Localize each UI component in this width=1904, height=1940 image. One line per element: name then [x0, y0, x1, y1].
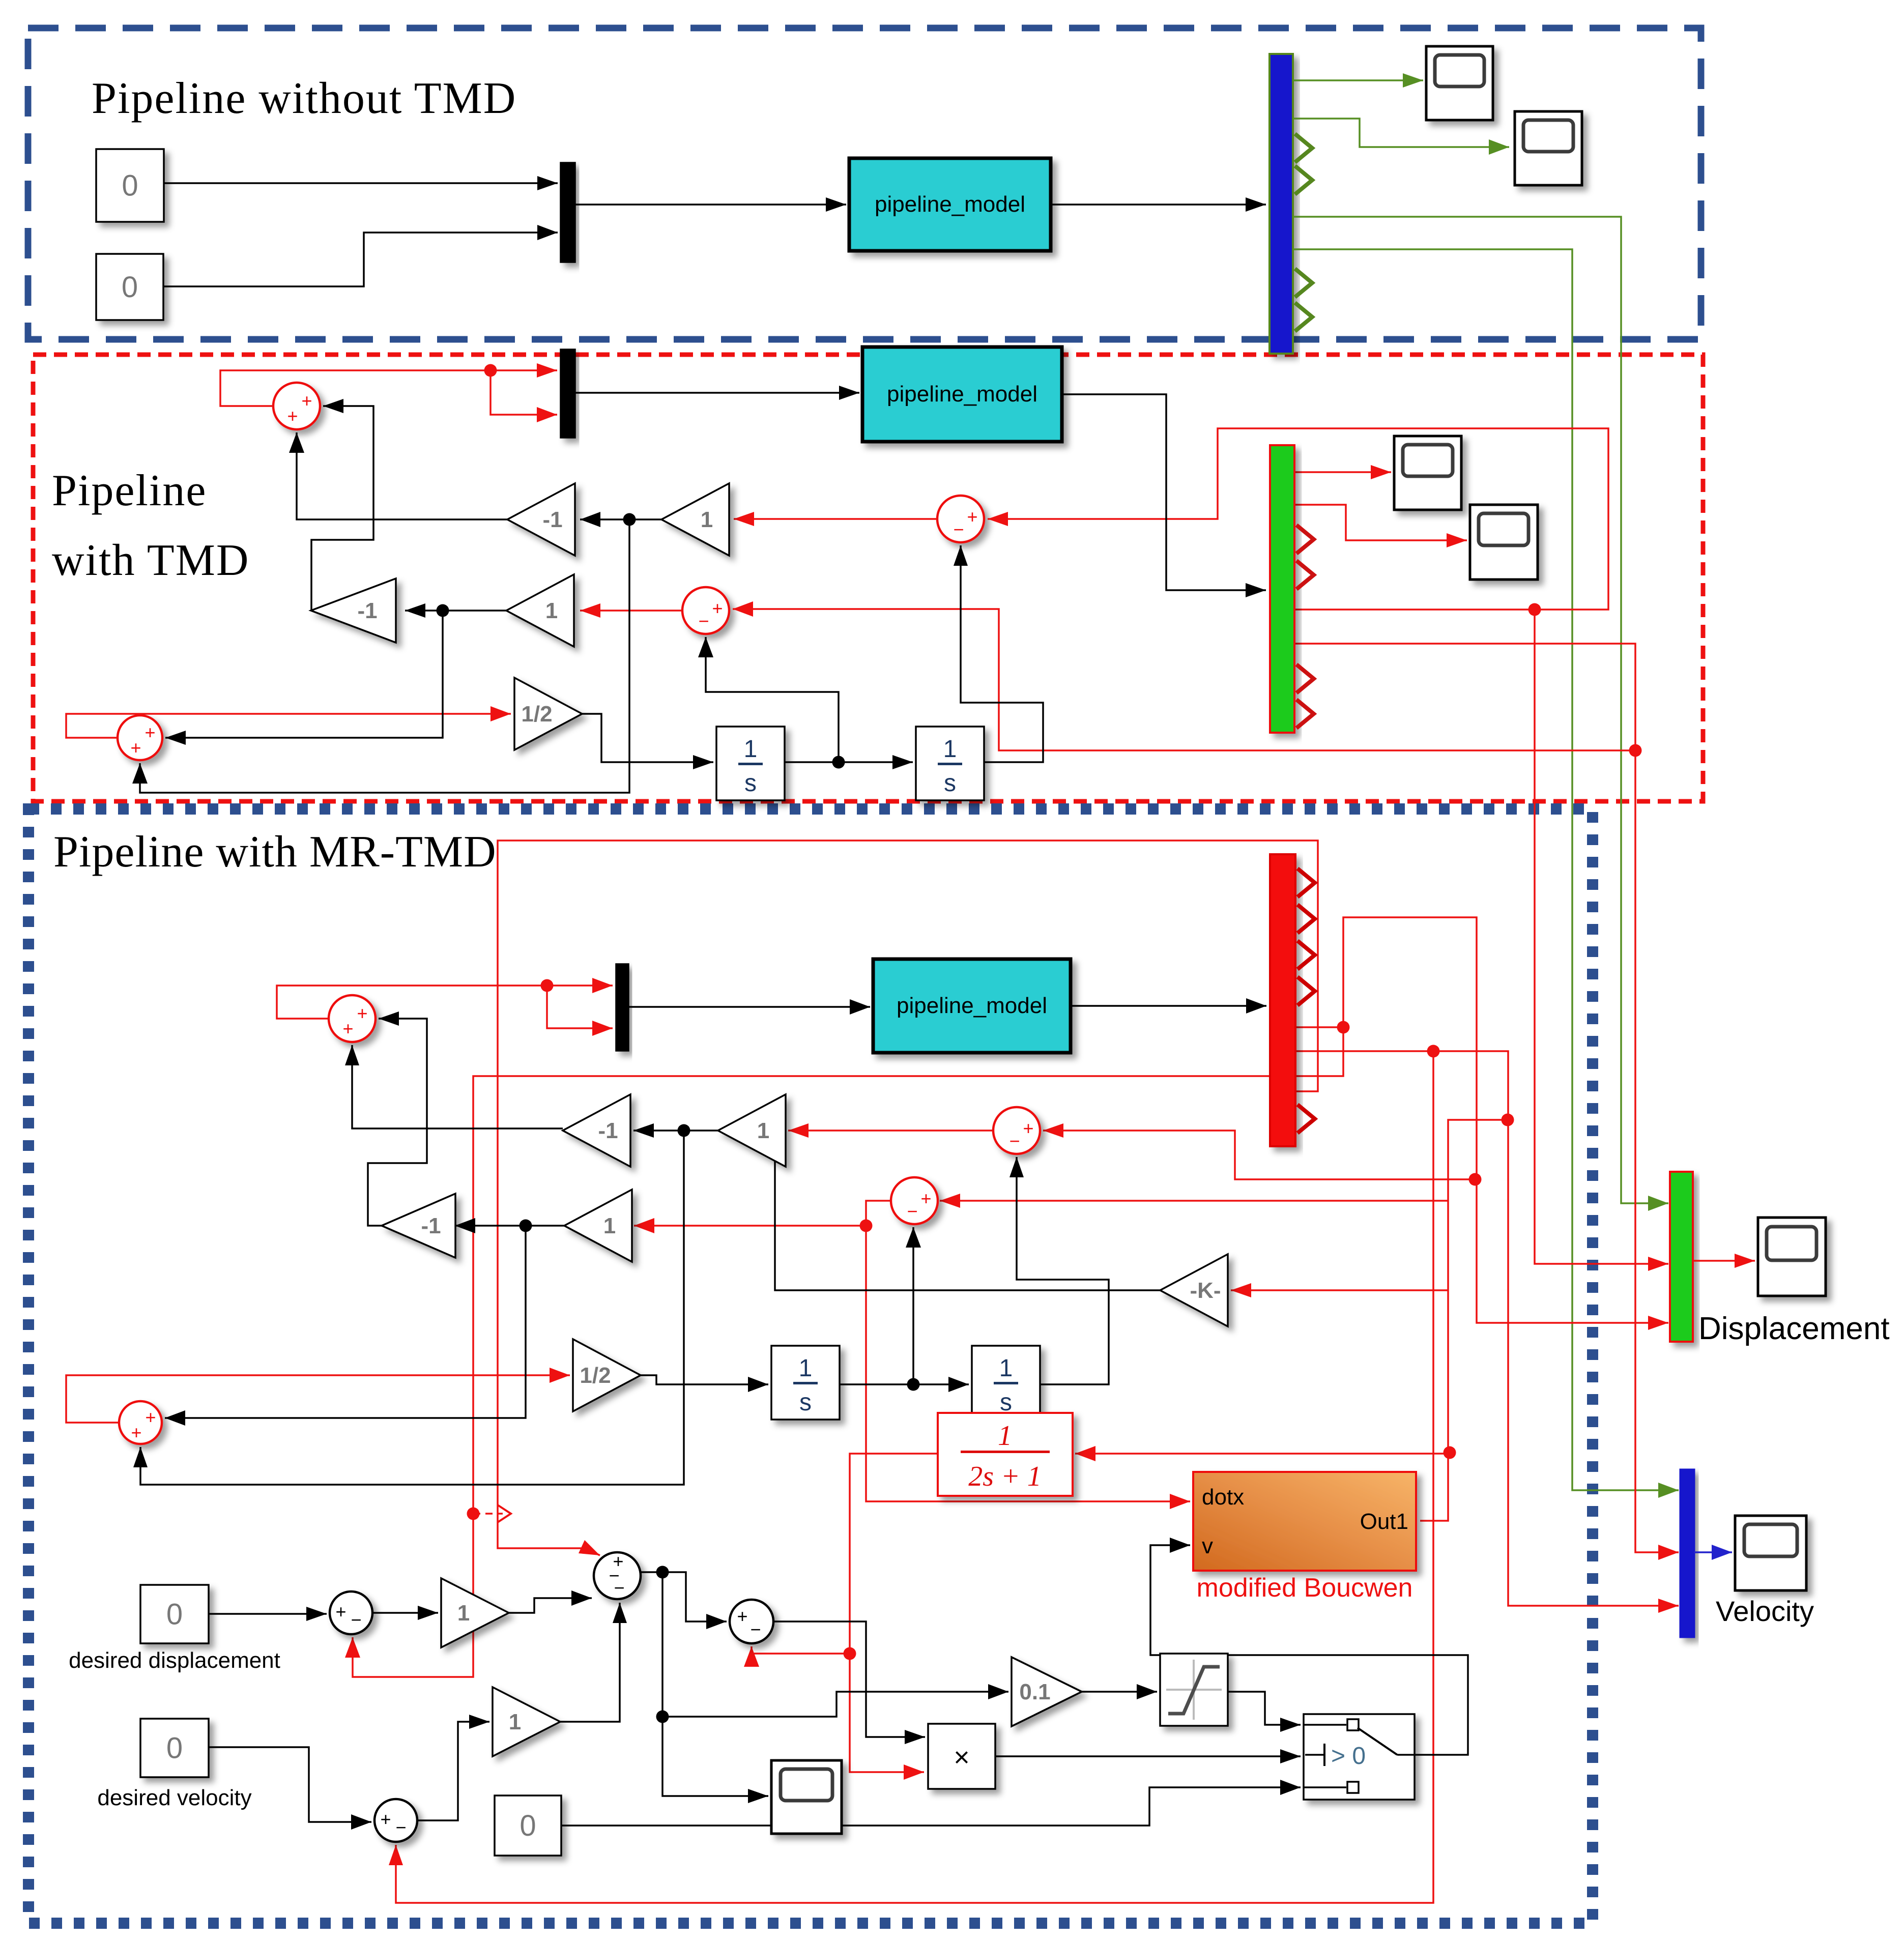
- sum block S10 (+- desired velocity): [374, 1799, 417, 1842]
- wire integrator2 output to S2 bottom input: [954, 545, 1043, 762]
- wire junction to S8 right input: [1043, 1123, 1475, 1179]
- svg-text:1: 1: [509, 1710, 521, 1734]
- svg-text:> 0: > 0: [1331, 1743, 1366, 1770]
- gain 1 (section 3 row 1): [718, 1094, 786, 1167]
- wire gain 0.1 output to saturation: [1082, 1684, 1157, 1699]
- gain -1 (section 3 row 1): [563, 1094, 630, 1167]
- demux3 unconnected port 3: [1297, 941, 1315, 969]
- svg-text:Displacement: Displacement: [1698, 1311, 1890, 1346]
- svg-text:0: 0: [520, 1809, 536, 1842]
- wire port6 branch to Velocity mux port2: [1635, 750, 1679, 1560]
- svg-text:+: +: [145, 1407, 156, 1428]
- wire transfer function output to product bottom: [844, 1454, 938, 1780]
- gain -1 (section 2 row 1): [507, 483, 575, 556]
- wire force to gain -K- input: [1231, 1283, 1448, 1297]
- wire demux3 port6 stub: [1295, 1045, 1440, 1058]
- wire gain 1/2 output to integrator1: [582, 714, 713, 769]
- svg-text:1: 1: [999, 1355, 1013, 1382]
- svg-text:pipeline_model: pipeline_model: [887, 382, 1037, 407]
- scope Scope4 (section 2): [1470, 505, 1538, 580]
- gain 1/2 (section 2): [514, 678, 582, 750]
- scope Scope2 (section 1): [1515, 111, 1582, 185]
- sum block S4 (+- desired displacement): [330, 1591, 372, 1634]
- wire gain1row1 tip to gain -1 row1: [580, 512, 661, 527]
- demux1 unconnected port 7: [1295, 269, 1312, 297]
- wire row2 junction to S1b right input: [165, 611, 443, 745]
- svg-text:+: +: [380, 1809, 391, 1830]
- svg-text:s: s: [744, 770, 757, 797]
- svg-text:−: −: [614, 1577, 624, 1598]
- svg-text:-1: -1: [542, 507, 562, 532]
- demux1 unconnected port 8: [1295, 303, 1312, 331]
- sum block S5 (+-- controller): [594, 1551, 641, 1599]
- wire port5 branch to S4 bottom (via x930): [345, 1027, 1343, 1677]
- subsystem modified Boucwen (orange block): [1193, 1472, 1416, 1571]
- svg-text:+: +: [737, 1606, 747, 1627]
- wire saturation output to switch input1: [1228, 1692, 1301, 1732]
- svg-text:modified Boucwen: modified Boucwen: [1197, 1573, 1413, 1603]
- svg-text:1: 1: [603, 1213, 616, 1238]
- svg-text:1: 1: [943, 736, 957, 763]
- sum block S2 (-+, section 2 row1): [937, 496, 984, 542]
- demux2 unconnected port 7: [1296, 664, 1314, 693]
- wire g1 output to S5 left input: [509, 1590, 592, 1613]
- demux1 unconnected port 4: [1295, 166, 1312, 194]
- scope Scope5 (section 3): [771, 1760, 842, 1834]
- wire S7 output to mux3 port1: [277, 978, 613, 1019]
- wire product output to switch input2: [995, 1749, 1301, 1763]
- wire g2 output to S5 bottom input: [560, 1603, 627, 1722]
- svg-text:0: 0: [122, 271, 138, 304]
- wire S5 branch down to scope5: [656, 1572, 769, 1803]
- svg-text:1: 1: [744, 736, 758, 763]
- gain 0.1: [1012, 1657, 1082, 1726]
- svg-text:+: +: [301, 390, 312, 411]
- wire mux2 to pipeline_model2: [575, 386, 859, 400]
- svg-text:+: +: [131, 1422, 141, 1443]
- wire s3row1 junction to S7b bottom input: [133, 1131, 684, 1485]
- mux Mux1 (section 1, black bar): [561, 163, 575, 262]
- sum block S6 (+-): [730, 1600, 773, 1643]
- wire constant2 to mux1: [163, 225, 558, 286]
- wire port6 branch to desired-velocity sum bottom: [389, 1051, 1433, 1903]
- wire s3row2 junction to S7b right input: [165, 1226, 526, 1426]
- wire desired displacement const to S4: [209, 1607, 327, 1621]
- wire mux1 to pipeline_model1: [575, 197, 846, 212]
- wire gain -1 s3row1 output to S7 bottom: [345, 1045, 563, 1128]
- svg-text:0: 0: [166, 1598, 183, 1631]
- wire port5 branch to Displacement mux port3: [1343, 917, 1668, 1330]
- svg-text:desired velocity: desired velocity: [97, 1785, 251, 1810]
- demux2 unconnected port 4: [1296, 561, 1314, 589]
- gain 1 (velocity branch): [493, 1687, 560, 1756]
- wire port6 branch to S3 right input: [733, 601, 1635, 750]
- svg-text:v: v: [1202, 1533, 1213, 1558]
- wire row1 junction to S1b bottom input: [132, 519, 629, 793]
- svg-text:−: −: [1009, 1131, 1020, 1151]
- wire branch to Boucwen dotx input: [866, 1226, 1190, 1509]
- svg-text:+: +: [920, 1188, 931, 1209]
- wire S4 output to gain block g1: [373, 1606, 438, 1620]
- demux3 unconnected port 1: [1297, 868, 1315, 897]
- wire port6 branch to Velocity mux port3: [1433, 1051, 1679, 1613]
- wire constant 0 to switch input3: [561, 1780, 1301, 1826]
- svg-text:−: −: [953, 519, 964, 540]
- demux Demux3 (section 3, red bar): [1270, 854, 1295, 1146]
- wire demux1 port6 to Velocity mux (long green): [1293, 249, 1679, 1498]
- svg-text:−: −: [750, 1619, 761, 1640]
- constant block 0 (input 2, section 1): [96, 254, 163, 320]
- wire demux1 port2 to scope2: [1293, 119, 1509, 155]
- scope Displacement scope: [1758, 1218, 1826, 1296]
- wire branch to Displacement mux port2: [1535, 610, 1668, 1271]
- sum block S7 (++, section 3 top): [329, 995, 376, 1042]
- wire gain 1/2 output to integrator3: [641, 1375, 768, 1392]
- svg-text:Out1: Out1: [1360, 1509, 1408, 1534]
- gain -1 (section 3 row 2): [382, 1194, 455, 1258]
- open arrowhead of dangling branch: [498, 1505, 511, 1522]
- wire Velocity mux to scope (blue): [1694, 1545, 1732, 1560]
- svg-text:+: +: [335, 1601, 346, 1622]
- svg-text:+: +: [342, 1018, 353, 1039]
- gain -K-: [1160, 1254, 1228, 1326]
- wire demux1 port1 to scope1: [1293, 73, 1423, 88]
- svg-text:s: s: [799, 1389, 812, 1416]
- gain 1 (section 2 row 2): [506, 574, 574, 647]
- svg-text:0: 0: [122, 169, 138, 202]
- integrator 1/s (section 2 second): [916, 727, 984, 800]
- mux Displacement (green bar): [1670, 1172, 1693, 1342]
- wire force to S9 right input: [940, 1194, 1448, 1208]
- svg-text:1/2: 1/2: [580, 1363, 611, 1388]
- demux3 unconnected port 4: [1297, 977, 1315, 1005]
- wire branch up to S9 bottom input: [906, 1227, 921, 1384]
- section border: Pipeline with MR-TMD (blue dotted): [28, 809, 1593, 1923]
- wire branch to gain 0.1: [662, 1684, 1008, 1717]
- dangling dashed branch: [473, 1513, 503, 1515]
- wire pipeline_model3 to demux3: [1071, 998, 1266, 1014]
- transfer function block 1/(2s+1): [938, 1413, 1073, 1496]
- wire S9 output to gain 1 row2 input: [634, 1201, 891, 1233]
- wire gain -1 s3row2 output jog to S7 right: [368, 1011, 427, 1226]
- saturation block: [1160, 1654, 1228, 1726]
- switch block (> 0): [1304, 1714, 1415, 1800]
- gain 1 (section 3 row 2): [564, 1190, 632, 1262]
- svg-text:with TMD: with TMD: [52, 536, 249, 585]
- wire demux2 port6 down: [1294, 644, 1642, 757]
- wire demux1 port5 to Displacement mux (long green): [1293, 217, 1668, 1211]
- demux2 unconnected port 8: [1296, 700, 1314, 728]
- svg-text:0.1: 0.1: [1019, 1680, 1050, 1704]
- constant block 0 (switch input): [495, 1796, 561, 1856]
- wire S7 output branch to mux3 port2: [547, 986, 613, 1036]
- wire S6 output to product top input: [773, 1622, 925, 1744]
- svg-text:desired displacement: desired displacement: [69, 1648, 280, 1673]
- wire S3 output to gain 1 row2: [580, 603, 682, 618]
- svg-text:Pipeline: Pipeline: [52, 466, 207, 515]
- gain 1/2 (section 3): [573, 1339, 641, 1411]
- svg-text:2s + 1: 2s + 1: [968, 1461, 1042, 1492]
- demux Demux1 (section 1, blue bar): [1270, 54, 1293, 354]
- demux3 unconnected port 2: [1297, 905, 1315, 933]
- subsystem pipeline_model (section 2): [862, 347, 1062, 442]
- sum block S3 (-+, section 2 row2): [682, 587, 729, 634]
- demux3 unconnected port 8: [1297, 1105, 1315, 1133]
- wire demux3 port5 stub: [1295, 1021, 1350, 1034]
- gain -1 (section 2 row 2): [311, 578, 396, 643]
- svg-text:dotx: dotx: [1202, 1485, 1244, 1510]
- svg-text:+: +: [967, 506, 977, 527]
- sum block S1 (++, section 2 top): [273, 383, 320, 429]
- wire force to transfer function input: [1075, 1446, 1448, 1461]
- svg-text:Pipeline without TMD: Pipeline without TMD: [92, 74, 516, 123]
- svg-text:1: 1: [457, 1601, 470, 1626]
- wire velocity sum output to gain g2: [418, 1715, 489, 1820]
- section border: Pipeline with TMD (red dashed): [33, 355, 1703, 801]
- svg-text:-1: -1: [598, 1118, 618, 1143]
- svg-text:+: +: [145, 722, 155, 743]
- gain 1 (displacement branch): [441, 1578, 509, 1647]
- svg-text:1: 1: [799, 1355, 813, 1382]
- svg-text:−: −: [698, 611, 709, 631]
- subsystem pipeline_model (section 1): [849, 158, 1051, 251]
- svg-text:1: 1: [545, 598, 558, 623]
- subsystem pipeline_model (section 3): [873, 959, 1071, 1053]
- scope Scope1 (section 1): [1426, 46, 1493, 120]
- svg-text:Pipeline with MR-TMD: Pipeline with MR-TMD: [53, 827, 497, 877]
- wire Boucwen Out1 feedback up: [1420, 1120, 1508, 1521]
- wire gain -1 row1 output to S1 bottom: [289, 432, 507, 519]
- svg-text:-1: -1: [357, 598, 377, 623]
- wire pipeline_model2 to demux2: [1062, 394, 1266, 597]
- svg-text:1/2: 1/2: [521, 702, 552, 727]
- mux Mux3 (section 3, black bar): [616, 964, 628, 1051]
- svg-text:+: +: [712, 598, 723, 619]
- wire S2 output to gain 1 row1: [734, 512, 937, 526]
- svg-text:pipeline_model: pipeline_model: [897, 993, 1047, 1018]
- sum block S7b (++, section 3 left): [119, 1401, 162, 1444]
- svg-text:-1: -1: [421, 1213, 441, 1238]
- svg-text:−: −: [907, 1201, 917, 1222]
- wire demux2 port2 to scope4: [1295, 505, 1467, 547]
- wire S5 output to S6: [641, 1566, 727, 1630]
- wire desired velocity const to sum: [209, 1747, 371, 1830]
- svg-text:−: −: [351, 1609, 361, 1630]
- wire integrator4 output to S8 bottom input: [1009, 1157, 1109, 1384]
- wire gain1row2 tip to gain -1 row2: [405, 603, 506, 618]
- wire constant1 to mux1: [164, 176, 558, 190]
- wire demux2 port5 to S2 right input: [988, 428, 1608, 616]
- svg-text:Velocity: Velocity: [1716, 1595, 1814, 1627]
- demux1 unconnected port 3: [1295, 134, 1312, 162]
- wire S1 output to mux2 port1: [220, 363, 557, 406]
- mux Velocity (blue bar): [1680, 1469, 1694, 1637]
- wire S7b output loop to gain 1/2: [66, 1368, 570, 1423]
- integrator 1/s (section 2 first): [716, 727, 785, 800]
- constant block 0 (input 1, section 1): [96, 149, 164, 222]
- sum block S8 (-+, section 3 row1): [993, 1107, 1040, 1154]
- wire branch to S6 bottom input: [744, 1646, 850, 1667]
- wire S8 output to gain 1 row1 input: [788, 1123, 993, 1138]
- svg-text:+: +: [130, 737, 141, 758]
- svg-text:pipeline_model: pipeline_model: [875, 192, 1025, 217]
- svg-text:1: 1: [701, 507, 713, 532]
- wire switch output to Boucwen v input: [1150, 1538, 1468, 1755]
- integrator 1/s (section 3 second): [972, 1346, 1040, 1420]
- wire Displacement mux to scope: [1693, 1254, 1755, 1268]
- svg-text:s: s: [944, 770, 956, 797]
- wire gain -1 row2 output to S1 right input: [311, 399, 373, 611]
- wire s3row1 gain1 tip to gain -1: [633, 1123, 718, 1138]
- svg-text:−: −: [395, 1817, 406, 1838]
- wire gain -K- output into row1 line: [769, 1124, 1161, 1291]
- product block (x): [928, 1724, 995, 1789]
- svg-text:1: 1: [757, 1118, 769, 1143]
- wire integrator1 to integrator2: [785, 755, 913, 769]
- wire S1 output branch to mux2 port2: [491, 370, 557, 422]
- wire branch up to S3 bottom input: [698, 637, 839, 762]
- integrator 1/s (section 3 first): [771, 1346, 840, 1420]
- wire demux2 port1 to scope3: [1295, 465, 1391, 479]
- scope Scope3 (section 2): [1394, 436, 1461, 510]
- gain 1 (section 2 row 1): [661, 483, 729, 556]
- wire mux3 to pipeline_model3: [628, 999, 870, 1015]
- svg-text:0: 0: [166, 1732, 183, 1765]
- wire integrator3 to integrator4: [840, 1377, 969, 1392]
- section border: Pipeline without TMD (blue dashed): [28, 28, 1701, 339]
- svg-text:+: +: [1023, 1118, 1033, 1139]
- svg-text:×: ×: [954, 1742, 970, 1773]
- svg-text:+: +: [287, 406, 298, 426]
- wire s3row2 gain1 tip to gain -1: [455, 1218, 564, 1233]
- demux Demux2 (section 2, green bar): [1270, 445, 1294, 733]
- scope Velocity scope: [1735, 1516, 1806, 1590]
- svg-text:-K-: -K-: [1190, 1278, 1221, 1303]
- svg-text:1: 1: [998, 1420, 1012, 1452]
- constant block 0 (desired velocity): [140, 1719, 209, 1777]
- sum block S9 (-+, section 3 row2): [891, 1177, 938, 1224]
- wire S1b output loop to gain 1/2: [66, 706, 511, 738]
- mux Mux2 (section 2, black bar): [561, 350, 575, 438]
- svg-text:+: +: [357, 1003, 367, 1024]
- wire pipeline_model1 to demux1: [1051, 197, 1266, 212]
- demux2 unconnected port 3: [1296, 525, 1314, 554]
- sum block S1b (++, section 2 bottom-left): [118, 715, 162, 760]
- constant block 0 (desired displacement): [140, 1585, 209, 1643]
- wire demux3 port7 long loop to S5: [498, 841, 1318, 1555]
